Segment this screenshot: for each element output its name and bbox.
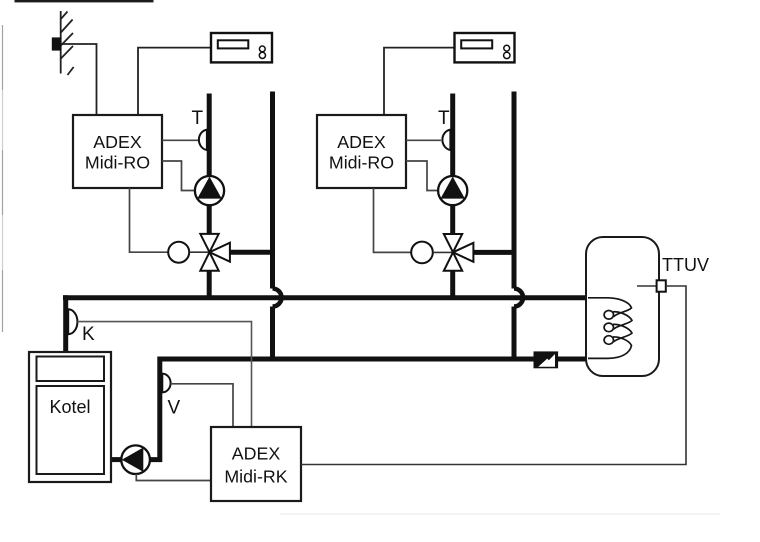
actuator link M1 bbox=[189, 251, 209, 253]
wire controller 1 to pump P1 bbox=[162, 161, 195, 191]
svg-text:T: T bbox=[192, 108, 204, 129]
wire sensor TTUV to controller RK bbox=[301, 286, 686, 465]
controller ADEX Midi-RK bbox=[211, 427, 301, 501]
wire controller 1 to valve actuator M1 bbox=[130, 188, 169, 252]
svg-text:Kotel: Kotel bbox=[49, 397, 90, 417]
sensor K bbox=[68, 309, 77, 334]
svg-text:K: K bbox=[82, 324, 95, 345]
valve 2 outlet pipe bbox=[471, 250, 517, 255]
storage tank bbox=[586, 237, 659, 376]
wire outdoor sensor to controller 1 bbox=[61, 44, 97, 115]
supply pipe circuit 2 (valve-to-main segment) bbox=[450, 271, 455, 300]
pump P1 bbox=[195, 176, 224, 205]
return pipe circuit 2 (lower segment) bbox=[512, 307, 517, 362]
boiler supply riser bbox=[63, 295, 68, 352]
check valve bbox=[534, 351, 559, 368]
supply pipe circuit 2 (upper segment) bbox=[450, 94, 455, 234]
controller ADEX Midi-RO 2 bbox=[317, 115, 406, 188]
svg-text:Midi-RO: Midi-RO bbox=[85, 153, 150, 173]
pump P2 bbox=[438, 176, 467, 205]
return pipe circuit 2 crossing hop bbox=[514, 289, 523, 307]
mixing valve V1 bbox=[200, 234, 230, 271]
wire controller 2 to sensor T2 bbox=[406, 139, 441, 141]
supply pipe circuit 1 (upper segment) bbox=[207, 94, 212, 234]
boiler pump P3 bbox=[121, 445, 150, 474]
return pipe circuit 1 (upper segment) bbox=[270, 92, 275, 289]
outdoor wall bbox=[60, 11, 73, 75]
return main pipe bbox=[150, 359, 589, 460]
return pipe circuit 2 (upper segment) bbox=[512, 92, 517, 289]
supply pipe circuit 1 (valve-to-main segment) bbox=[207, 271, 212, 300]
wire controller 1 to sensor T1 bbox=[162, 139, 198, 141]
heat exchanger coil bbox=[588, 298, 632, 359]
return pipe circuit 1 (lower segment) bbox=[270, 307, 275, 362]
scan artifact left edge line bbox=[2, 25, 4, 332]
wire room unit 2 to controller 2 bbox=[384, 48, 455, 115]
svg-text:V: V bbox=[168, 398, 181, 419]
scan artifact bottom streak bbox=[280, 513, 720, 515]
boiler-pump pipe bbox=[111, 457, 124, 462]
supply main pipe bbox=[63, 295, 588, 300]
wire room unit 1 to controller 1 bbox=[138, 48, 211, 115]
wire pump P3 to controller RK bbox=[136, 474, 211, 481]
controller ADEX Midi-RO 1 bbox=[73, 115, 162, 188]
return pipe circuit 1 crossing hop bbox=[273, 289, 282, 307]
mixing valve V2 bbox=[444, 234, 474, 271]
svg-text:Midi-RO: Midi-RO bbox=[329, 153, 394, 173]
outdoor temperature sensor bbox=[52, 37, 62, 50]
scan artifact top bar bbox=[15, 0, 154, 2]
sensor T1 bbox=[199, 130, 207, 150]
boiler Kotel bbox=[29, 352, 111, 482]
sensor T2 bbox=[442, 130, 450, 150]
wire controller 2 to valve actuator M2 bbox=[374, 188, 412, 252]
sensor V bbox=[162, 374, 170, 393]
valve actuator M2 bbox=[411, 242, 433, 264]
room unit 1 bbox=[211, 33, 272, 62]
svg-text:TTUV: TTUV bbox=[662, 255, 709, 275]
svg-text:ADEX: ADEX bbox=[232, 444, 281, 464]
svg-text:Midi-RK: Midi-RK bbox=[224, 467, 287, 487]
wire sensor K to controller RK bbox=[77, 322, 251, 428]
sensor TTUV bbox=[637, 280, 666, 291]
wire sensor V to controller RK bbox=[171, 384, 234, 428]
svg-text:ADEX: ADEX bbox=[93, 132, 142, 152]
valve 1 outlet pipe bbox=[228, 250, 275, 255]
wire controller 2 to pump P2 bbox=[406, 161, 438, 191]
svg-text:T: T bbox=[438, 108, 450, 129]
room unit 2 bbox=[455, 33, 515, 62]
valve actuator M1 bbox=[168, 242, 189, 263]
actuator link M2 bbox=[433, 251, 453, 253]
svg-text:ADEX: ADEX bbox=[337, 132, 386, 152]
